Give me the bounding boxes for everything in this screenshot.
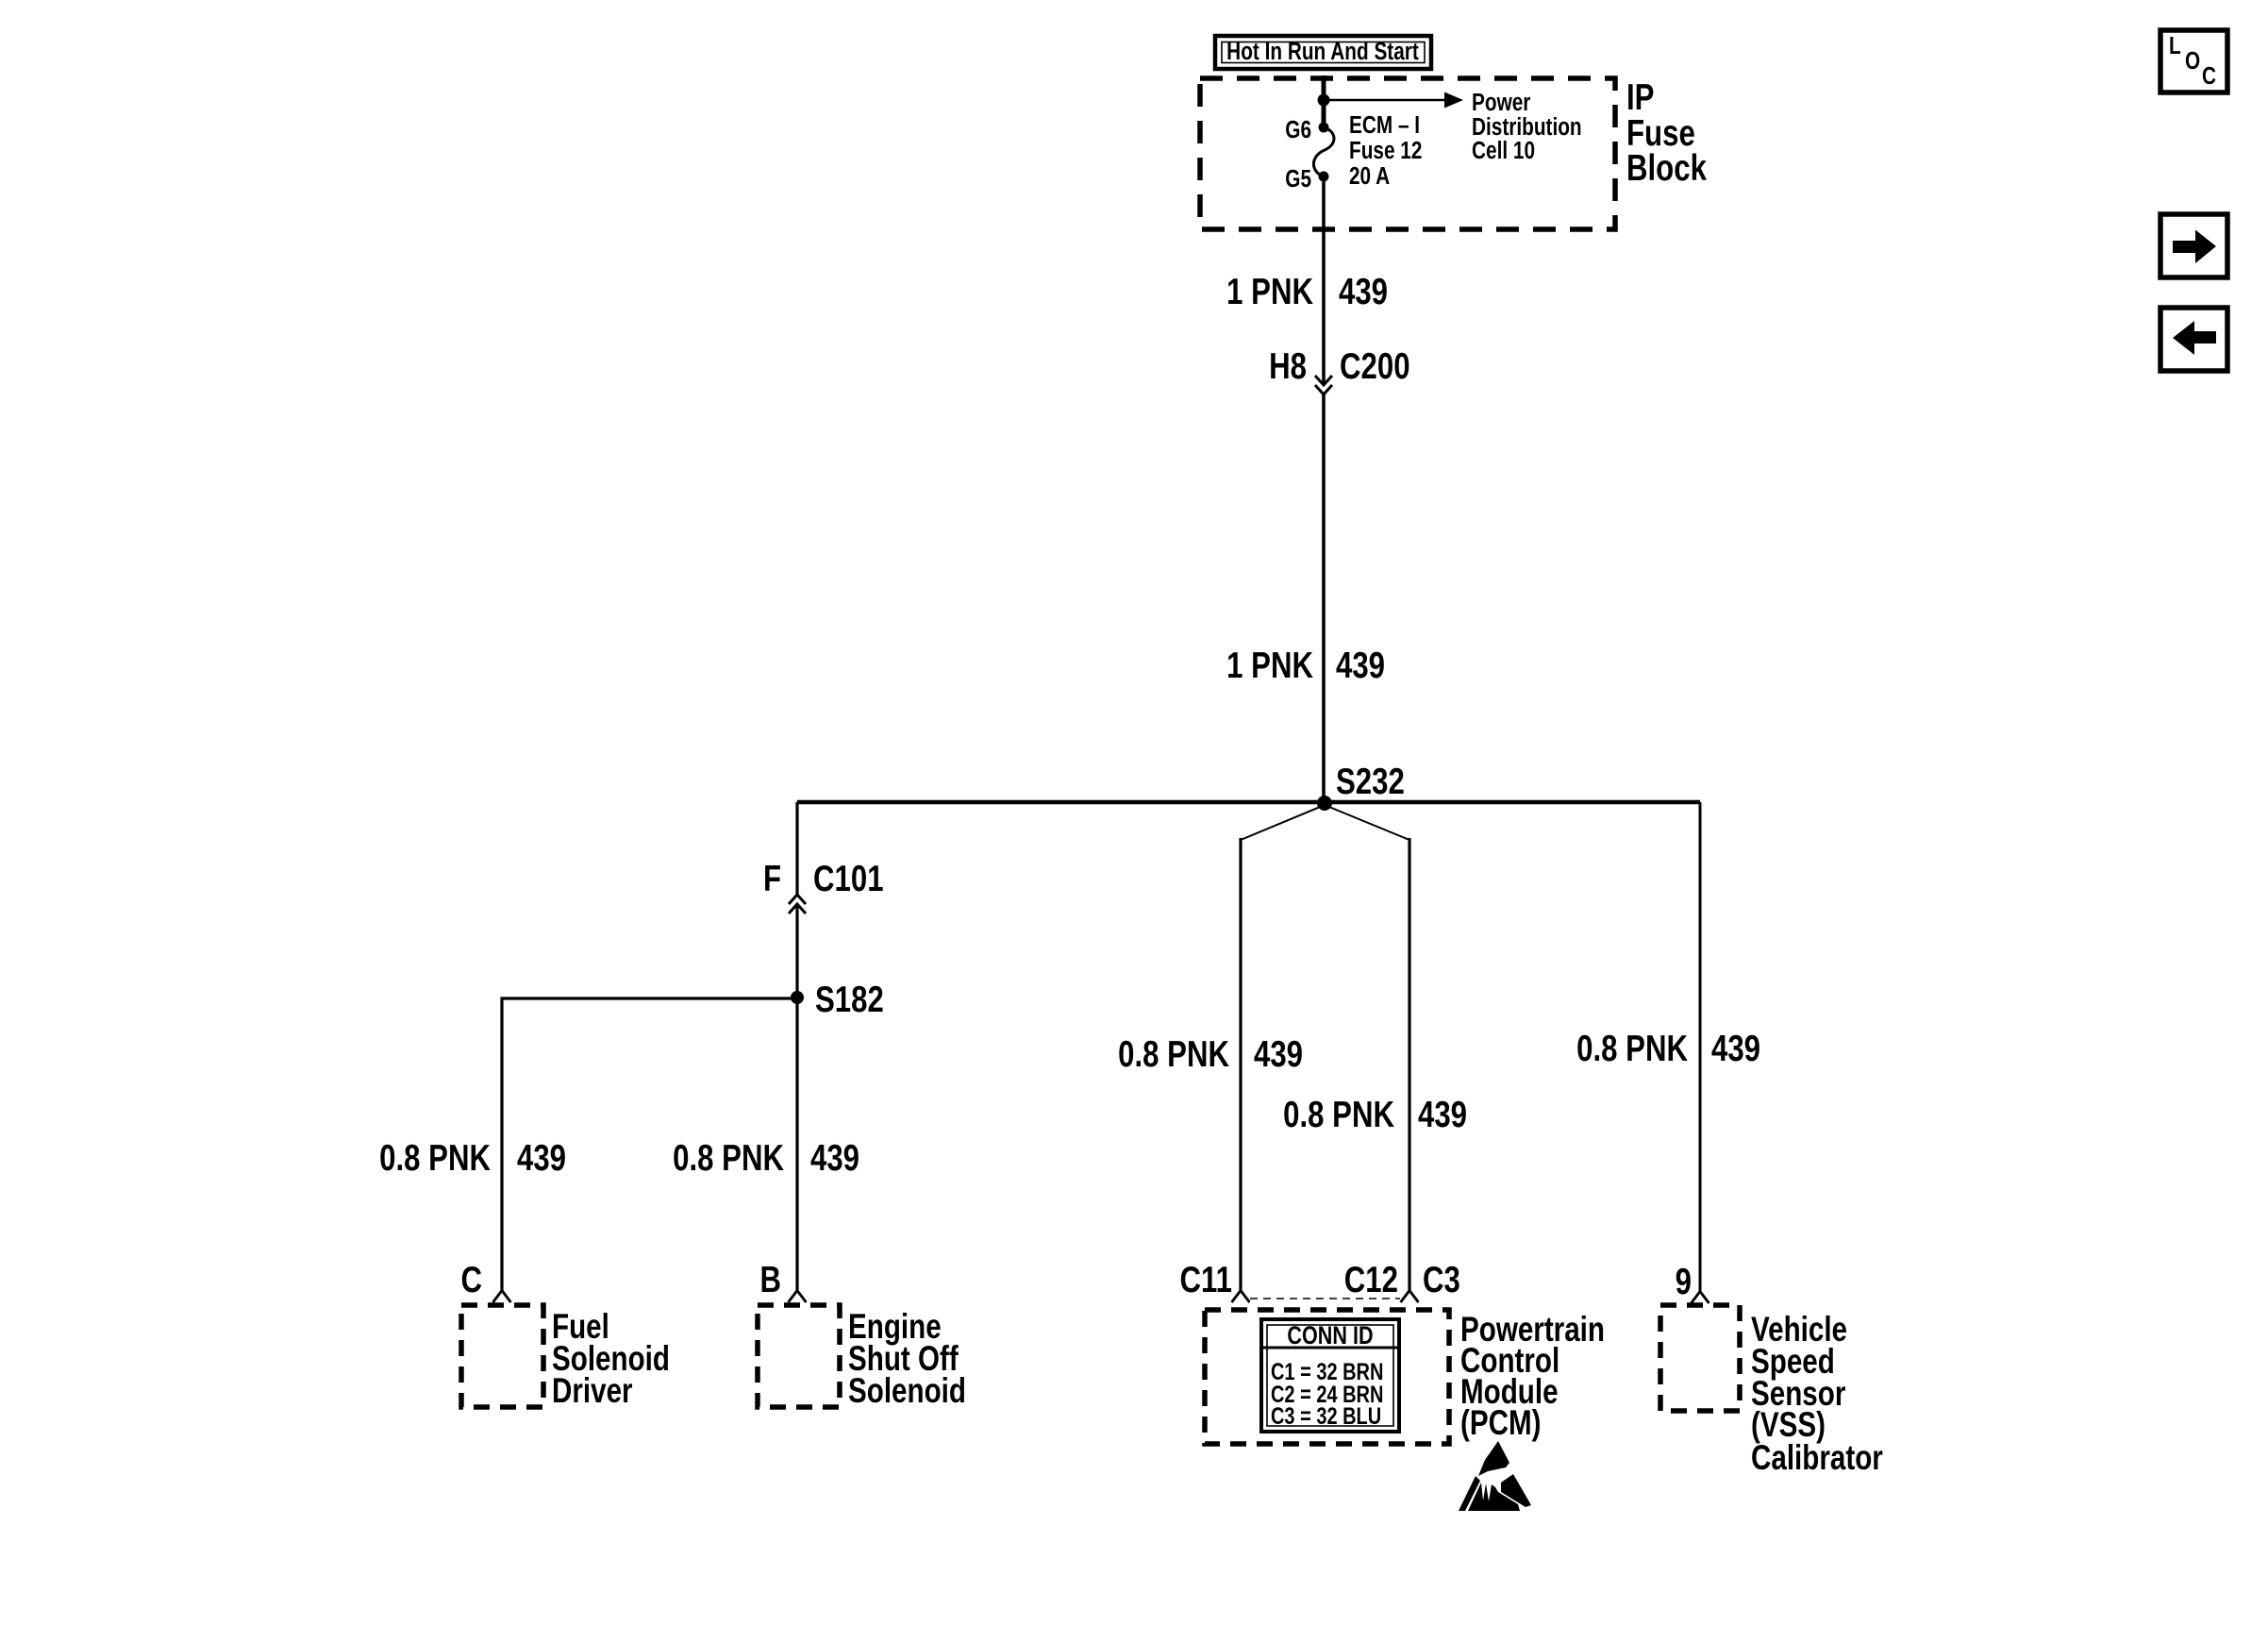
wire G5 down to C200 xyxy=(1322,176,1326,383)
svg-text:9: 9 xyxy=(1676,1262,1692,1302)
svg-text:439: 439 xyxy=(1254,1034,1303,1075)
svg-text:Fuse 12: Fuse 12 xyxy=(1349,137,1422,164)
wire junction to G6 xyxy=(1322,100,1326,127)
pin C11 terminal chevron xyxy=(1232,1291,1250,1303)
svg-text:Power: Power xyxy=(1472,89,1530,116)
svg-text:0.8 PNK: 0.8 PNK xyxy=(1576,1029,1688,1069)
LOC icon box xyxy=(2160,30,2227,92)
svg-text:439: 439 xyxy=(1339,272,1388,312)
svg-text:439: 439 xyxy=(1711,1029,1760,1069)
svg-text:C101: C101 xyxy=(813,859,884,899)
svg-text:Solenoid: Solenoid xyxy=(848,1372,966,1411)
wire left bus down from S232 xyxy=(795,802,798,895)
svg-text:0.8 PNK: 0.8 PNK xyxy=(1118,1034,1229,1075)
svg-text:Calibrator: Calibrator xyxy=(1751,1439,1883,1478)
svg-text:(PCM): (PCM) xyxy=(1460,1404,1541,1443)
svg-text:CONN ID: CONN ID xyxy=(1287,1322,1373,1350)
pin 9 terminal chevron xyxy=(1692,1292,1709,1304)
svg-text:Hot In Run And Start: Hot In Run And Start xyxy=(1226,38,1419,65)
ESD warning symbol xyxy=(1459,1441,1531,1511)
svg-text:C12: C12 xyxy=(1344,1260,1398,1300)
fuse ECM-I Fuse 12 20 A xyxy=(1313,127,1334,176)
svg-text:C: C xyxy=(2202,62,2216,90)
svg-text:0.8 PNK: 0.8 PNK xyxy=(1283,1095,1394,1135)
Engine Shut Off Solenoid dashed box xyxy=(758,1305,840,1407)
connector dashed line between C11 and C12 xyxy=(1250,1298,1400,1299)
splice node S232 xyxy=(1317,796,1332,811)
svg-text:0.8 PNK: 0.8 PNK xyxy=(673,1138,784,1179)
wire C200 down to S232 xyxy=(1322,394,1326,803)
svg-text:S182: S182 xyxy=(815,980,884,1020)
pin B terminal chevron xyxy=(789,1291,807,1303)
svg-text:439: 439 xyxy=(1336,645,1385,686)
svg-text:G5: G5 xyxy=(1285,165,1311,193)
svg-text:20 A: 20 A xyxy=(1349,162,1390,190)
left arrow icon box xyxy=(2160,308,2227,371)
wire S182 down branch xyxy=(795,998,798,1291)
svg-text:439: 439 xyxy=(810,1138,859,1179)
wire arrow to Power Distribution xyxy=(1324,92,1463,109)
splice node S182 xyxy=(791,991,804,1004)
svg-text:C3: C3 xyxy=(1423,1260,1460,1300)
wire C12 vertical xyxy=(1408,838,1410,1291)
svg-text:C3 = 32 BLU: C3 = 32 BLU xyxy=(1271,1403,1381,1430)
pin C12 terminal chevron xyxy=(1401,1291,1419,1303)
svg-text:S232: S232 xyxy=(1336,762,1405,802)
svg-text:1 PNK: 1 PNK xyxy=(1226,272,1313,312)
wire diagonal S232 to C12 branch xyxy=(1325,805,1409,840)
svg-text:0.8 PNK: 0.8 PNK xyxy=(379,1138,491,1179)
svg-text:Driver: Driver xyxy=(552,1372,633,1411)
svg-text:Cell 10: Cell 10 xyxy=(1472,137,1535,164)
connector C101 pin F xyxy=(763,859,884,914)
title box Hot In Run And Start xyxy=(1215,36,1431,69)
pin G5 terminal dot xyxy=(1319,172,1329,182)
PCM dashed box xyxy=(1205,1310,1449,1444)
svg-text:B: B xyxy=(759,1260,781,1300)
wire horizontal bus from S232 xyxy=(797,800,1700,805)
wire C11 vertical xyxy=(1239,838,1242,1291)
Vehicle Speed Sensor dashed box xyxy=(1660,1305,1740,1411)
svg-text:C200: C200 xyxy=(1340,346,1410,387)
svg-text:H8: H8 xyxy=(1269,346,1307,387)
svg-text:L: L xyxy=(2169,32,2181,59)
svg-text:439: 439 xyxy=(1418,1095,1467,1135)
svg-text:C: C xyxy=(460,1260,482,1300)
svg-text:C11: C11 xyxy=(1180,1260,1232,1300)
svg-text:ECM – I: ECM – I xyxy=(1349,111,1420,139)
svg-text:1 PNK: 1 PNK xyxy=(1226,645,1313,686)
svg-text:G6: G6 xyxy=(1285,116,1311,143)
node junction above fuse xyxy=(1318,94,1330,107)
right arrow icon box xyxy=(2160,214,2227,277)
Fuel Solenoid Driver dashed box xyxy=(461,1305,543,1407)
wire C101 to S182 xyxy=(795,904,798,997)
wire diagonal S232 to C11 branch xyxy=(1241,805,1325,840)
IP Fuse Block dashed box xyxy=(1200,78,1615,229)
svg-text:IP: IP xyxy=(1626,77,1654,118)
wire right bus down from S232 xyxy=(1699,802,1702,1291)
connector C200 pin H8 xyxy=(1269,346,1409,394)
pin G6 terminal dot xyxy=(1319,123,1329,133)
CONN ID table xyxy=(1261,1319,1399,1432)
wire from title box into fuse block xyxy=(1322,75,1326,100)
svg-text:O: O xyxy=(2185,47,2200,75)
wire S182 left branch xyxy=(502,998,797,1291)
svg-text:439: 439 xyxy=(517,1138,566,1179)
pin C terminal chevron xyxy=(493,1291,511,1303)
svg-text:F: F xyxy=(763,859,781,899)
svg-text:Block: Block xyxy=(1626,148,1707,189)
